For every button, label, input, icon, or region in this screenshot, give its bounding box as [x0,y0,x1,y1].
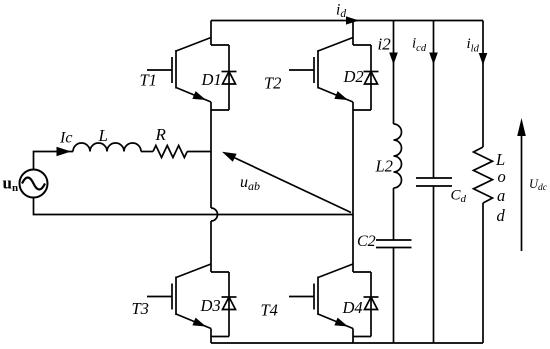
IGBT T2 [289,38,353,103]
svg-text:Udc: Udc [529,177,548,193]
IGBT T3 [147,264,211,329]
svg-text:a: a [497,186,505,205]
label Load [495,150,506,225]
crossover hop [211,208,218,221]
svg-text:L: L [98,126,108,145]
svg-text:ild: ild [467,36,480,55]
IGBT T4 [289,264,353,329]
svg-text:T4: T4 [261,301,278,320]
diode D4 [353,272,379,337]
wire Cd branch upper [433,21,435,179]
arrow id [346,16,359,24]
arrow i2 [389,53,398,65]
svg-text:T1: T1 [140,71,157,90]
svg-text:D1: D1 [201,70,222,89]
wire left leg middle (node a) [210,102,212,208]
svg-text:T3: T3 [132,299,149,318]
svg-text:uab: uab [240,174,260,193]
wire right leg bottom stub [352,329,354,344]
IGBT T1 [147,38,211,103]
svg-text:R: R [155,125,167,144]
svg-text:D3: D3 [200,296,221,315]
wire bottom rail [211,342,483,344]
svg-text:Ic: Ic [59,130,72,147]
wire right leg top stub [352,21,354,46]
wire R to node a [187,151,211,153]
svg-text:T2: T2 [264,74,281,93]
wire top rail [211,20,483,22]
AC source un [20,170,48,198]
wire L2 branch upper [393,21,395,125]
svg-text:D4: D4 [342,298,363,317]
arrow ild [479,53,488,65]
capacitor C2 [376,240,412,248]
resistor Load [474,147,493,203]
diode D3 [211,272,237,337]
wire L to R [141,151,153,153]
svg-text:id: id [336,2,346,21]
svg-text:o: o [498,167,506,186]
svg-text:C2: C2 [357,233,376,250]
diode D2 [353,45,379,110]
wire load bottom [482,203,484,343]
svg-text:D2: D2 [343,67,364,86]
arrow icd [429,53,438,65]
svg-text:Cd: Cd [451,188,467,206]
wire L2 to C2 [393,188,395,240]
svg-text:L2: L2 [375,157,393,176]
wire Cd bottom [433,186,435,343]
arrow uab [222,152,351,213]
capacitor Cd [416,178,452,186]
inductor L [73,143,141,152]
wire C2 bottom [393,248,395,344]
wire input bottom to node b [34,198,354,215]
resistor R [153,146,187,158]
svg-text:icd: icd [412,36,427,55]
wire load branch upper [482,21,484,148]
inductor L2 [394,124,402,188]
diode D1 [211,45,237,110]
wire left leg bottom stub [210,329,212,344]
svg-text:d: d [497,206,506,225]
wire left leg top stub [210,21,212,46]
arrow Udc [517,118,526,251]
svg-text:i2: i2 [378,35,392,54]
wire input top [34,152,74,170]
svg-text:un: un [3,174,19,195]
wire right leg middle (node b) [352,102,354,272]
wire left leg lower [210,221,212,272]
arrow Ic [57,147,72,157]
